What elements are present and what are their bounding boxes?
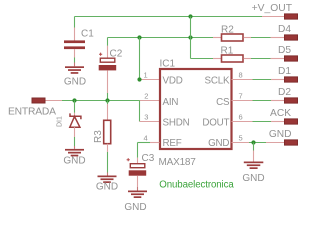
svg-text:7: 7 bbox=[239, 92, 243, 101]
wire R1 row bbox=[191, 58, 222, 60]
svg-text:3: 3 bbox=[144, 113, 148, 122]
node junction rail2-VDD bbox=[137, 35, 141, 39]
ground at pin5 bbox=[242, 162, 264, 185]
svg-text:R1: R1 bbox=[221, 46, 234, 57]
svg-text:IC1: IC1 bbox=[160, 59, 176, 70]
wire pin6 to ACK bbox=[232, 121, 286, 123]
svg-text:GND: GND bbox=[269, 129, 292, 140]
svg-text:D5: D5 bbox=[278, 45, 291, 56]
svg-text:GND: GND bbox=[242, 173, 264, 184]
wire ENTRADA net bbox=[45, 100, 160, 102]
capacitor C3 bbox=[127, 153, 155, 191]
svg-text:SCLK: SCLK bbox=[205, 75, 230, 86]
wire vertical rail to R1 bbox=[190, 17, 192, 59]
wire pin5 to GND pad bbox=[232, 142, 286, 144]
pad +V_OUT bbox=[252, 3, 298, 19]
node junction diode bbox=[72, 98, 76, 102]
svg-text:ENTRADA: ENTRADA bbox=[8, 107, 56, 118]
svg-text:4: 4 bbox=[144, 134, 148, 143]
wire top rail bbox=[75, 16, 286, 18]
svg-text:Onubaelectronica: Onubaelectronica bbox=[159, 180, 234, 191]
svg-text:SHDN: SHDN bbox=[163, 118, 190, 129]
IC pin numbers bbox=[144, 71, 243, 143]
svg-text:GND: GND bbox=[64, 77, 86, 88]
resistor R3 bbox=[93, 101, 111, 176]
node junction pin1 bbox=[137, 77, 141, 81]
pad D2 bbox=[278, 87, 298, 103]
capacitor C1 bbox=[64, 17, 94, 67]
diode DI1 bbox=[57, 101, 81, 149]
svg-text:1: 1 bbox=[144, 71, 148, 80]
node junction rail2-R2 bbox=[188, 35, 192, 39]
svg-text:GND: GND bbox=[96, 182, 118, 193]
svg-text:C3: C3 bbox=[142, 153, 155, 164]
svg-text:C2: C2 bbox=[110, 49, 123, 60]
wire SHDN branch bbox=[140, 101, 160, 122]
pad D5 bbox=[278, 45, 298, 61]
wire pin8 to D1 bbox=[232, 79, 286, 81]
pad GND right bbox=[269, 129, 298, 145]
ground under DI1 bbox=[63, 149, 85, 167]
pad ACK bbox=[270, 108, 297, 124]
pad D4 bbox=[278, 24, 298, 40]
resistor R2 bbox=[221, 25, 243, 42]
IC pin names bbox=[163, 75, 230, 149]
resistor R1 bbox=[221, 46, 244, 63]
svg-text:REF: REF bbox=[163, 138, 182, 149]
svg-text:DOUT: DOUT bbox=[202, 118, 229, 129]
svg-text:VDD: VDD bbox=[163, 75, 183, 86]
wire VDD branch bbox=[140, 38, 160, 80]
svg-text:GND: GND bbox=[124, 202, 146, 213]
node junction R3 bbox=[105, 98, 109, 102]
svg-text:MAX187: MAX187 bbox=[159, 157, 197, 168]
wire rail2 bbox=[108, 37, 222, 39]
svg-text:2: 2 bbox=[144, 92, 148, 101]
svg-text:D2: D2 bbox=[278, 87, 291, 98]
IC U1 box MAX187 bbox=[159, 59, 232, 169]
svg-text:GND: GND bbox=[208, 138, 229, 149]
ground under C3 bbox=[124, 191, 147, 214]
ground under C1 bbox=[64, 66, 86, 87]
ground under R3 bbox=[96, 176, 118, 193]
svg-text:D1: D1 bbox=[278, 66, 291, 77]
pad D1 bbox=[278, 66, 298, 82]
wire pin7 to D2 bbox=[232, 100, 286, 102]
svg-text:AIN: AIN bbox=[163, 97, 179, 108]
svg-text:8: 8 bbox=[239, 71, 243, 80]
wire ground drop pin5 bbox=[253, 143, 255, 162]
wire REF to C3 bbox=[138, 143, 160, 164]
svg-text:+V_OUT: +V_OUT bbox=[252, 3, 293, 14]
pad ENTRADA bbox=[8, 98, 56, 118]
svg-text:DI1: DI1 bbox=[57, 116, 64, 127]
svg-text:C1: C1 bbox=[81, 29, 94, 40]
node junction top rail bbox=[188, 14, 192, 18]
wire R2 to D4 bbox=[244, 37, 286, 39]
svg-text:CS: CS bbox=[216, 97, 230, 108]
svg-text:GND: GND bbox=[63, 156, 85, 167]
svg-text:5: 5 bbox=[239, 134, 243, 143]
node junction pin5 bbox=[251, 140, 255, 144]
svg-text:6: 6 bbox=[239, 113, 243, 122]
svg-text:ACK: ACK bbox=[270, 108, 291, 119]
capacitor C2 bbox=[99, 38, 123, 101]
svg-text:D4: D4 bbox=[278, 24, 291, 35]
svg-text:R2: R2 bbox=[221, 25, 234, 36]
wire R1 to D5 bbox=[244, 58, 286, 60]
svg-text:R3: R3 bbox=[93, 130, 104, 143]
